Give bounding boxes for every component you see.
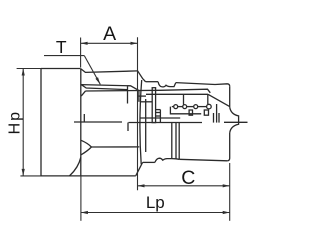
- neck top: [146, 81, 159, 83]
- body right edge top: [229, 86, 231, 107]
- inner cone diagonal: [208, 94, 230, 106]
- Lp dimension line: [81, 212, 230, 214]
- neck bottom: [143, 161, 155, 163]
- body bottom: [179, 159, 227, 161]
- Lp arrows: [81, 211, 88, 214]
- body top: [176, 83, 230, 87]
- thread end vertical: [127, 86, 129, 103]
- hex sleeve body: [41, 69, 136, 177]
- spring circle 1: [174, 105, 178, 109]
- Hp arrows: [22, 69, 25, 76]
- tick verticals: [183, 94, 185, 104]
- Hp ext top: [17, 68, 41, 70]
- Lp ext left: [80, 176, 82, 221]
- centerline left dash: [74, 121, 122, 123]
- nozzle: [230, 107, 239, 133]
- thread trapezoid: [81, 85, 139, 91]
- hex chamfer arc bottom band: [70, 157, 81, 176]
- short vertical at thread root: [83, 114, 85, 122]
- C ext right / Lp ext right: [229, 163, 231, 221]
- T shelf: [44, 55, 84, 57]
- face chamfer arc: [140, 80, 142, 164]
- spring circle 3: [194, 105, 198, 109]
- groove bottom: [155, 158, 172, 162]
- T leader: [84, 56, 100, 85]
- inner bore line: [86, 89, 211, 93]
- body right edge bottom: [227, 133, 230, 161]
- spring circle 4: [207, 104, 212, 109]
- thread root line bottom: [91, 146, 139, 148]
- face side tick: [138, 95, 146, 97]
- svg-text:Lp: Lp: [146, 193, 165, 212]
- valve bar: [152, 88, 155, 123]
- Hp dimension line: [22, 69, 24, 176]
- small rect below circles 1: [189, 110, 192, 115]
- right inner verticals: [213, 113, 215, 123]
- ext line A left / nut: [80, 38, 82, 68]
- small rect below circles 2: [204, 110, 208, 115]
- neck root line: [145, 99, 147, 152]
- lower inner verticals: [171, 123, 173, 159]
- face chamfer bottom: [136, 162, 143, 175]
- thread end lower vertical: [127, 123, 129, 132]
- T leader arrow: [95, 77, 100, 84]
- arrowheads: [22, 42, 230, 214]
- bottom profile rings: [172, 158, 179, 161]
- face side vertical: [138, 91, 140, 102]
- thread half V top: [81, 91, 85, 96]
- Hp ext bottom: [20, 175, 41, 177]
- C arrows: [138, 184, 145, 187]
- svg-text:C: C: [181, 167, 195, 189]
- inner line y118: [140, 117, 180, 119]
- spring link segments: [172, 106, 174, 108]
- dimension lines: [17, 37, 230, 221]
- inner line y113.8: [170, 107, 201, 114]
- centerline nozzle: [224, 121, 248, 123]
- face chamfer top: [138, 71, 146, 82]
- inner line 2: [146, 93, 208, 95]
- svg-text:A: A: [103, 23, 116, 45]
- ext+face line right: [137, 37, 139, 190]
- A dimension line: [81, 42, 138, 44]
- valve stem steps: [156, 109, 161, 111]
- spring circle 2: [183, 105, 187, 109]
- body step top: [81, 69, 138, 73]
- C dimension line: [138, 185, 230, 187]
- svg-text:Hp: Hp: [7, 110, 24, 134]
- A arrows: [81, 42, 88, 45]
- svg-text:T: T: [56, 37, 67, 57]
- thread runout V bottom: [81, 140, 92, 155]
- centerline main: [129, 122, 203, 124]
- groove top: [158, 82, 176, 87]
- inner short line: [140, 101, 152, 103]
